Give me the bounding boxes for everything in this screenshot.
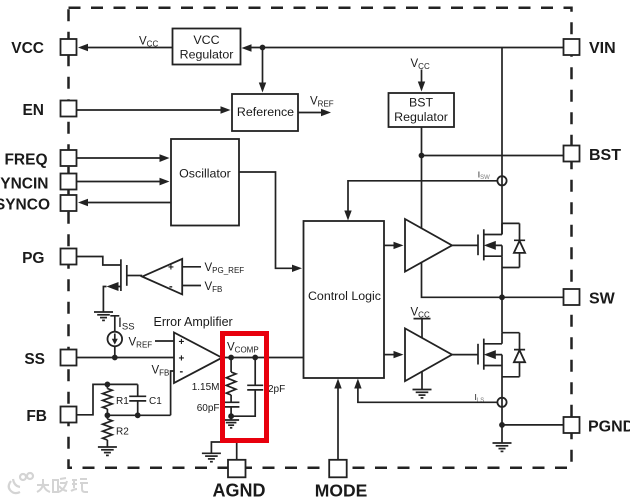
wire comp node down to ground (230, 416, 232, 419)
ground compensation network (223, 420, 239, 428)
node BST junction (419, 153, 425, 159)
wire PGND node down to ground (501, 425, 503, 443)
svg-text:FREQ: FREQ (4, 152, 47, 169)
wire high-side driver bottom to SW node (422, 262, 503, 297)
svg-text:Regulator: Regulator (180, 48, 234, 62)
wire FREQ to Oscillator with arrow (77, 154, 170, 162)
svg-text:R1: R1 (116, 396, 129, 407)
svg-text:Reference: Reference (237, 105, 294, 119)
wire SS pin to error amplifier (77, 357, 175, 359)
svg-text:R2: R2 (116, 427, 129, 438)
resistor R2 (103, 415, 113, 446)
sense bubble Isw (497, 176, 506, 185)
capacitor 60pF (223, 402, 240, 416)
svg-text:+: + (168, 263, 174, 274)
svg-text:60pF: 60pF (197, 403, 220, 414)
wire low-side driver bottom to ground (421, 371, 423, 389)
ground analog ground symbol (202, 453, 221, 461)
ground power ground symbol (493, 443, 512, 451)
wire Control Logic to low-side driver with arrow (384, 351, 404, 358)
node C1 bottom junction (135, 412, 141, 418)
svg-text:SYNCO: SYNCO (0, 197, 50, 214)
pin PGND (564, 417, 630, 436)
svg-text:SS: SS (24, 351, 45, 368)
pin MODE (315, 460, 368, 501)
svg-text:FB: FB (26, 408, 47, 425)
watermark text (37, 478, 88, 492)
svg-text:-: - (180, 366, 184, 378)
svg-text:BST: BST (589, 147, 621, 164)
svg-text:SYNCIN: SYNCIN (0, 176, 49, 193)
node R1 bottom junction (105, 412, 111, 418)
node SW junction (499, 294, 505, 300)
capacitor C1 (129, 384, 146, 415)
IC boundary dashed border (69, 8, 572, 468)
ground below low-side driver (413, 390, 432, 398)
highlight red box around compensation network (223, 334, 267, 441)
wire VCC Regulator to VCC pin with arrow (78, 44, 173, 51)
pin BST (564, 146, 622, 165)
svg-text:-: - (169, 281, 173, 293)
pin SW (564, 289, 616, 308)
svg-text:VIN: VIN (589, 40, 616, 57)
svg-text:SW: SW (589, 291, 616, 308)
driver U-HS high-side gate driver (405, 219, 452, 272)
current source Iss (108, 316, 123, 358)
wire PG pin to transistor drain (77, 257, 121, 266)
svg-text:Oscillator: Oscillator (179, 167, 231, 181)
wire Oscillator output to Control Logic with arrow (239, 172, 302, 272)
wire PGND node to PGND pin (502, 424, 564, 426)
wire Oscillator to SYNCO pin with arrow (78, 199, 171, 206)
wire BST Regulator output to BST pin (422, 127, 564, 156)
wire Control Logic to high-side driver with arrow (384, 242, 404, 249)
pin EN (22, 101, 76, 120)
block Reference (232, 94, 298, 131)
svg-text:C1: C1 (149, 396, 162, 407)
comparator U-PG power good comparator (142, 259, 182, 295)
wire Vfb input stub PG comparator (182, 285, 201, 287)
wire Vcomp output to Control Logic (222, 357, 304, 359)
svg-text:PGND: PGND (588, 419, 630, 436)
sense bubble Ils (497, 398, 506, 407)
transistor Q3 PG open-drain MOSFET (103, 259, 142, 311)
wire SW node to SW pin (502, 296, 564, 298)
ground below R2 (98, 447, 117, 455)
wire SYNCIN to Oscillator with arrow (77, 178, 170, 186)
node comp network right junction (252, 355, 258, 361)
wire divider mid node (107, 414, 170, 416)
capacitor 2pF (231, 358, 263, 417)
wire EN to Reference with arrow (77, 106, 231, 113)
ground below PG transistor (94, 312, 113, 320)
wire FB pin up to divider top (77, 384, 138, 414)
pin VCC (11, 39, 76, 57)
svg-text:VCC: VCC (11, 40, 44, 57)
wire MODE to Control Logic with arrow (334, 379, 341, 461)
svg-text:AGND: AGND (213, 481, 266, 501)
wire BST rail down to high-side driver (421, 156, 423, 229)
driver U-LS low-side gate driver (405, 328, 452, 381)
block Control Logic (304, 221, 385, 378)
svg-text:BST: BST (409, 96, 434, 110)
wire Reference VREF output arrow (298, 109, 331, 116)
svg-text:MODE: MODE (315, 481, 368, 501)
node junction on VIN wire (260, 45, 266, 51)
svg-text:1.15M: 1.15M (192, 382, 220, 393)
pin PG (22, 249, 76, 268)
wire AGND pin to analog ground (211, 442, 236, 461)
pin VIN (564, 39, 616, 57)
transistor Q1 high-side MOSFET (452, 223, 502, 297)
diode D1 high-side body diode (502, 223, 525, 267)
node comp ground junction (228, 413, 234, 419)
op-amp U-EA error amplifier (174, 333, 222, 384)
svg-text:2pF: 2pF (268, 384, 285, 395)
wire Vcc tick down to low-side driver (421, 319, 423, 339)
svg-text:VCC: VCC (193, 33, 219, 47)
wire SW node down to low-side FET drain (501, 297, 503, 332)
svg-text:Regulator: Regulator (394, 110, 448, 124)
pin FB (26, 407, 76, 426)
wire Ils to Control Logic bottom with arrow (354, 379, 497, 403)
block VCC Regulator (173, 29, 241, 65)
svg-text:EN: EN (22, 102, 44, 119)
node comp network left junction (228, 355, 234, 361)
svg-text:PG: PG (22, 250, 44, 267)
wire Vref to error amplifier (155, 340, 174, 342)
resistor 1.15M compensation (226, 358, 236, 403)
pin SYNCO (0, 195, 77, 214)
node divider top junction (105, 382, 111, 388)
svg-text:+: + (179, 337, 185, 348)
pin SYNCIN (0, 174, 77, 193)
transistor Q2 low-side MOSFET (452, 333, 502, 425)
block Oscillator (171, 139, 239, 226)
wire Vcc down to BST Regulator with arrow (418, 70, 425, 92)
pin AGND (213, 460, 266, 501)
wire Vfb riser from divider to error amp minus input (171, 371, 174, 415)
svg-text:Control Logic: Control Logic (308, 289, 381, 303)
block BST Regulator (389, 93, 455, 127)
wire VIN rail down to Isw sensor (501, 48, 503, 235)
node SS junction (112, 355, 118, 361)
pin FREQ (4, 150, 76, 169)
wire Isw to Control Logic top with arrow (344, 181, 497, 221)
wire junction down to Reference with arrow (259, 48, 266, 93)
diode D2 low-side body diode (502, 333, 525, 377)
wire VIN to VCC Regulator with arrow (242, 44, 564, 51)
svg-text:Error Amplifier: Error Amplifier (154, 315, 233, 329)
label Vcc above low-side driver (411, 307, 431, 320)
resistor R1 (103, 384, 113, 415)
pin SS (24, 350, 76, 369)
node PGND junction (499, 422, 505, 428)
svg-text:+: + (179, 354, 185, 365)
watermark logo (9, 473, 33, 493)
wire Vpg_ref input stub (182, 266, 201, 268)
